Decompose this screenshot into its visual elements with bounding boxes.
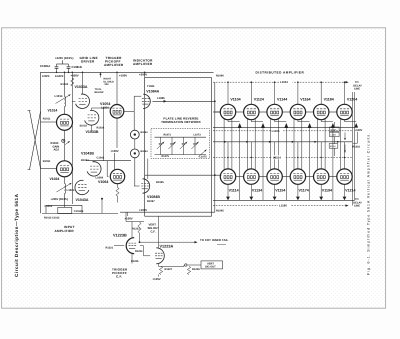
cathode tap triangle V1134 [249,197,253,201]
grid tap node for V1204 [344,81,346,83]
inductor grid line L1154 dashed bottom row [213,157,352,159]
svg-text:C.F.: C.F. [116,275,122,279]
wire V1054 cathode down [116,118,118,148]
wire V1014 plate stub [64,107,66,115]
svg-text:+125V: +125V [153,277,161,281]
grid tap node for V1104 [227,81,229,83]
svg-text:Circuit Description—Type 561A: Circuit Description—Type 561A [14,193,19,277]
cathode tap triangle V1174 [296,197,300,201]
svg-text:R1071: R1071 [164,134,172,137]
inductor L1205 termination [330,132,340,136]
wire network top bus [155,136,207,138]
svg-text:V1144: V1144 [277,97,287,101]
svg-text:R1205: R1205 [331,128,337,131]
wire +100V drop [114,153,116,170]
node B terminal [101,198,103,200]
svg-text:AMPLIFIER: AMPLIFIER [55,229,75,233]
svg-text:V1154: V1154 [275,189,285,193]
ladder verticals between rows [227,142,229,169]
svg-text:LINE: LINE [354,204,360,207]
right margin caption: Fig 6-1 [366,132,370,275]
wire delay line right vertical B [354,92,356,200]
wire main +450V top bus [41,71,214,73]
wire V1223A plate from box [157,216,159,248]
svg-text:L1104: L1104 [280,80,288,84]
wire V1084B plate line [144,175,146,179]
svg-text:+225V (DCPL): +225V (DCPL) [51,198,69,201]
resistor T1083 feed [144,72,146,77]
resistor R1064 [117,184,119,188]
wire V1223B grid [114,245,124,247]
wire screen bus [213,141,352,143]
wire lower network left [42,212,118,214]
pentode V1104 [220,104,235,119]
junction on screen bus [314,141,316,143]
pentode V1214 [337,169,352,184]
arrow to delay line lower [344,145,346,153]
pentode V1124 [244,104,259,119]
pentode V1184 [314,104,329,119]
termination network dashed box [151,129,210,159]
svg-text:+300V: +300V [139,72,147,76]
terminal circle vert sig out [185,264,187,266]
variable capacitor C1073 in network [171,137,173,143]
svg-text:V1134: V1134 [252,189,262,193]
svg-text:BELOW: BELOW [95,91,105,94]
svg-text:R1012 C1012: R1012 C1012 [44,216,60,219]
pentode V1114 [220,169,235,184]
svg-text:+100V: +100V [125,217,133,221]
wire V1214 cathode [344,184,346,196]
wire V1223B plate [131,222,133,238]
capacitor C1081B [68,64,70,66]
svg-text:R1043: R1043 [81,159,89,162]
pentode V1154 [267,169,282,184]
inductor L1014 variable [65,97,66,107]
pentode V1054 [110,105,124,119]
indicator amplifier enclosure [145,78,212,217]
inductor grid line L1196 dashed [213,205,346,207]
junction on screen bus [246,141,248,143]
triode V1033A [76,94,90,108]
pentode V1064 [110,169,124,183]
pentode V1164 [290,104,305,119]
svg-text:R1032: R1032 [61,83,69,86]
wire V1014 plate to bus [64,72,66,96]
inductor grid line L1104 dashed top [213,81,346,83]
wire grid chain bottom row [236,176,244,178]
wire V1124 cathode [250,120,252,122]
wire termination stack [333,122,335,127]
svg-text:V1064: V1064 [98,180,108,184]
svg-text:V1164: V1164 [300,97,310,101]
svg-text:V1174: V1174 [299,189,309,193]
triode V1084A [143,94,150,108]
svg-text:R1085: R1085 [156,181,164,184]
wire V1033A grid [72,100,75,102]
wire to vert sig out box [187,264,201,266]
triode V1024 [57,161,73,177]
cathode tap triangle V1154 [273,197,277,201]
svg-text:R1095: R1095 [216,210,224,213]
triode V1043B [87,162,101,176]
svg-text:R1226: R1226 [192,268,200,271]
grid tap node bottom row [274,157,275,158]
wire pickoff top link [125,212,127,221]
pentode V1194 [314,169,329,184]
wire V1014 cathode [64,130,66,138]
svg-text:DISTRIBUTED AMPLIFIER: DISTRIBUTED AMPLIFIER [256,70,305,74]
wire V1014 grid [41,121,57,123]
svg-text:B1064: B1064 [141,150,149,153]
cathode tap triangle V1144 [284,123,288,128]
capacitor network box C1012 [58,207,72,213]
svg-text:L1073: L1073 [194,134,202,137]
svg-text:+100V: +100V [139,208,147,212]
svg-text:TO CRT INNER TAIL: TO CRT INNER TAIL [200,238,229,242]
wire DA left vertical [214,82,216,212]
svg-text:T1083: T1083 [147,85,155,88]
variable capacitor C1071 in network [160,137,162,143]
svg-text:V1084B: V1084B [147,195,160,199]
wire left input bus [40,72,42,213]
lamp B1063 [130,130,139,139]
potentiometer R1033 GAIN ADJ [65,141,70,144]
wire V1204 cathode [344,120,346,122]
svg-text:V1184: V1184 [324,97,334,101]
grid tap node for V1124 [251,81,253,83]
svg-text:C.F.: C.F. [151,229,156,233]
wire plate line to V1104 grid [152,100,214,102]
manual page background [2,28,386,308]
svg-text:R1221: R1221 [106,247,114,250]
svg-text:+100V: +100V [355,129,363,132]
svg-text:8-50PF: 8-50PF [55,75,64,78]
wire V1223A cathode out [158,264,160,267]
svg-text:R1227: R1227 [165,268,173,271]
svg-text:S1033: S1033 [80,124,88,127]
wire V1134 cathode [250,184,252,196]
svg-text:+450V: +450V [71,73,79,77]
svg-text:V1194: V1194 [322,189,332,193]
svg-text:AMPLIFIER: AMPLIFIER [104,63,124,67]
wire V1194 cathode [320,184,322,196]
resistor R1226 [187,266,190,274]
pentode V1134 [244,169,259,184]
cathode tap triangle V1104 [238,123,242,128]
wire V1114 cathode [227,184,229,196]
triode V1084B [143,179,150,193]
svg-text:B1063: B1063 [141,131,149,134]
variable capacitor C1077 in network [194,137,196,143]
wire lamp link [134,139,136,149]
capacitor C1081A [56,64,58,66]
grid tap node bottom row [297,157,298,158]
svg-text:AMPLIFIER: AMPLIFIER [133,62,153,66]
wire cathode bus bottom row [213,199,355,201]
wire bottom feed bus [120,211,215,213]
svg-text:+100V: +100V [119,73,127,77]
wire lamp to V1084B grid [134,158,136,186]
wire network to V1084B [147,159,149,179]
cathode tap triangle V1214 [343,197,347,201]
wire V1104 cathode [227,120,229,122]
pentode V1144 [267,104,282,119]
junction on screen bus [269,141,271,143]
junction on screen bus [337,141,339,143]
resistor R1205 termination [330,127,340,132]
wire grid entry V1104 [215,111,221,113]
grid tap node bottom row [251,157,252,158]
svg-text:R1223: R1223 [132,228,140,231]
svg-text:L1014: L1014 [55,94,63,98]
svg-text:100PF: 100PF [42,75,50,78]
triode V1033B [85,110,99,125]
svg-text:R1087: R1087 [147,200,155,203]
wire V1033B plate link [91,108,93,110]
svg-text:V1014: V1014 [48,109,58,113]
wire R1223 to junction [139,233,141,242]
lamp B1064 [130,149,139,158]
svg-text:C1081B: C1081B [72,65,82,69]
svg-text:V1054: V1054 [100,102,110,106]
triode V1223B [126,238,134,254]
wire V1144 cathode [274,120,276,122]
svg-text:V1084A: V1084A [146,89,159,93]
svg-text:L1085: L1085 [157,97,165,100]
svg-text:DRIVER: DRIVER [81,59,95,63]
variable capacitor C1075 in network [183,137,185,143]
left margin caption: Circuit Description - Type 561A [14,193,19,277]
grid tap node for V1144 [274,81,276,83]
cathode tap triangle V1114 [226,197,230,201]
svg-text:LINE: LINE [354,87,360,90]
svg-text:L1196: L1196 [279,204,287,208]
wire V1174 cathode [297,184,299,196]
cathode tap triangle V1204 [354,123,358,128]
svg-text:ADJ: ADJ [54,149,60,152]
junction on screen bus [224,141,226,143]
svg-text:R1011: R1011 [43,118,51,121]
arrow to delay line upper [344,133,346,141]
svg-text:V1033B: V1033B [86,130,99,134]
wire grid chain top row [213,111,220,113]
svg-text:V1124: V1124 [254,97,264,101]
svg-text:R1225: R1225 [131,260,139,263]
svg-text:V1024: V1024 [50,177,60,181]
svg-text:+225V (DCPL): +225V (DCPL) [55,56,73,60]
wire V1024 cathode down [64,194,66,208]
wire +100V right drop [357,132,359,143]
resistor R1032 [71,78,74,86]
svg-text:R1216: R1216 [353,146,361,149]
node bus junctions [56,72,58,74]
wire network bottom bus [155,154,207,156]
svg-text:SIG OUT: SIG OUT [205,266,216,269]
svg-text:V1033A: V1033A [75,85,88,89]
grid tap node bottom row [227,157,228,158]
grid tap node bottom row [344,157,345,158]
wire cathode bus top row [213,127,355,129]
svg-text:904: 904 [105,83,110,86]
svg-text:V1223B: V1223B [113,234,127,238]
pentode V1204 [337,104,352,119]
svg-text:L1205: L1205 [331,134,336,137]
svg-text:R1204: R1204 [330,145,336,148]
variable inductor L1076 [199,150,207,157]
wire V1033B cathode [91,125,93,131]
cathode tap triangle V1124 [261,123,265,128]
inductor plate line L1105 dashed [213,130,352,132]
svg-text:R1096: R1096 [216,75,224,78]
inductor L1024 variable [64,177,66,184]
svg-text:R1075: R1075 [162,155,170,158]
wire +225V feed [62,60,64,64]
svg-text:TERMINATION NETWORK: TERMINATION NETWORK [161,120,201,124]
svg-text:V1223A: V1223A [160,244,174,248]
wire V1024 grid [41,168,57,170]
cathode tap triangle V1194 [319,197,323,201]
cathode tap triangle V1184 [331,123,335,128]
triode V1043A [75,180,89,194]
svg-text:Fig. 6-1. Simplified Type 561A: Fig. 6-1. Simplified Type 561A Vertical … [366,132,370,275]
wire V1223B to V1223A grid [140,245,144,247]
resistor R1204 termination [329,144,338,149]
grid tap node for V1164 [297,81,299,83]
svg-text:V1104: V1104 [230,97,240,101]
wire V1223B cathode [131,254,133,264]
svg-text:V1043B: V1043B [81,151,94,155]
svg-text:R1031: R1031 [43,160,51,163]
wire grid feed bus [86,160,131,162]
input cable crossover [30,111,41,170]
svg-text:R1224: R1224 [135,250,143,253]
svg-text:C1043: C1043 [97,156,105,159]
pentode V1174 [290,169,305,184]
wire V1054 plate to lamps [124,110,134,112]
svg-text:L1064: L1064 [96,176,104,179]
wire V1043B top [93,160,95,163]
label box VERT SIG OUT [201,261,223,269]
wire V1164 cathode [297,120,299,122]
triode V1014 [57,114,73,130]
svg-text:L1054: L1054 [101,107,109,110]
svg-text:L1024: L1024 [67,188,75,192]
svg-text:V1043A: V1043A [76,198,89,202]
wire cathode chain [64,139,66,161]
wire V1154 cathode [274,184,276,196]
wire driver left bus [71,72,73,204]
wire lower network top [46,204,82,206]
grid tap node for V1184 [320,81,322,83]
wire delay line right vertical A [351,92,353,206]
svg-text:L1075: L1075 [200,155,208,158]
svg-text:+100V: +100V [111,149,119,153]
junction on screen bus [291,141,293,143]
svg-text:V1214: V1214 [345,189,355,193]
node gain adj wiper [62,139,65,142]
cathode tap triangle V1164 [308,123,312,128]
resistor R1223 [138,222,141,233]
grid tap node bottom row [321,157,322,158]
wire V1184 cathode [320,120,322,122]
resistor R1227 [159,266,162,274]
triode V1223A [156,248,164,264]
svg-text:V1114: V1114 [229,189,239,193]
wire V1033A plate [82,72,84,94]
svg-text:C1081A: C1081A [40,64,50,68]
wire C1081 rail [57,63,69,65]
wire V1054 plate up [116,72,118,104]
node DL shield tap [100,73,102,75]
wire V1084A grid feed [133,96,135,111]
wire signal to CRT tail [140,241,195,243]
